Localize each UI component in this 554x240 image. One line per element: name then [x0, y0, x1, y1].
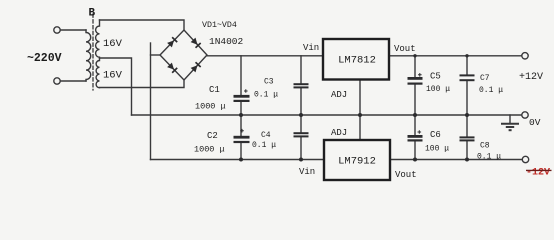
svg-text:C2: C2 [207, 131, 218, 141]
svg-text:100 μ: 100 μ [426, 85, 450, 94]
svg-text:+12V: +12V [519, 72, 543, 83]
svg-text:ADJ: ADJ [331, 128, 347, 138]
svg-text:C8: C8 [480, 142, 490, 151]
svg-text:ADJ: ADJ [331, 90, 347, 100]
svg-text:C3: C3 [264, 78, 274, 87]
svg-text:VD1~VD4: VD1~VD4 [202, 21, 237, 30]
svg-text:Vin: Vin [299, 167, 315, 177]
svg-text:C7: C7 [480, 74, 490, 83]
svg-text:C6: C6 [430, 130, 441, 140]
svg-text:0.1 μ: 0.1 μ [252, 141, 276, 150]
svg-text:-12V: -12V [526, 168, 550, 179]
svg-text:B: B [89, 8, 96, 20]
svg-text:16V: 16V [103, 38, 123, 50]
svg-text:C4: C4 [261, 131, 271, 140]
svg-text:~220V: ~220V [27, 52, 62, 65]
svg-text:Vin: Vin [303, 43, 319, 53]
svg-text:Vout: Vout [394, 44, 416, 54]
svg-text:0.1 μ: 0.1 μ [254, 91, 278, 100]
svg-text:16V: 16V [103, 70, 123, 82]
svg-text:1N4002: 1N4002 [209, 36, 244, 47]
svg-text:0.1 μ: 0.1 μ [479, 86, 503, 95]
svg-text:100 μ: 100 μ [425, 145, 449, 154]
svg-text:Vout: Vout [395, 170, 417, 180]
svg-text:LM7812: LM7812 [338, 55, 376, 67]
svg-text:C1: C1 [209, 85, 220, 95]
svg-text:0V: 0V [529, 117, 541, 128]
svg-text:LM7912: LM7912 [338, 156, 376, 168]
svg-text:1000 μ: 1000 μ [195, 102, 226, 112]
svg-text:0.1 μ: 0.1 μ [477, 153, 501, 162]
svg-text:1000 μ: 1000 μ [194, 145, 225, 155]
svg-text:C5: C5 [430, 72, 441, 82]
